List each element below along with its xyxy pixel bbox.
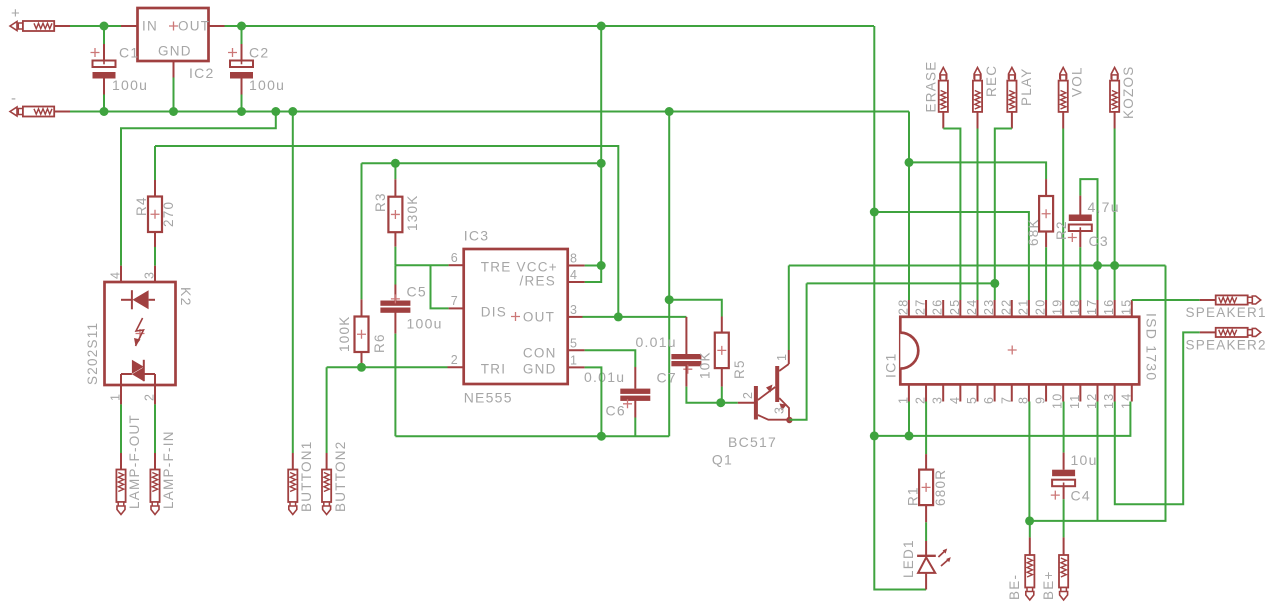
wire -rail drop x909: [908, 112, 910, 301]
svg-text:27: 27: [914, 299, 928, 315]
resistor R1: [919, 470, 933, 506]
wire C3 top lead: [1079, 196, 1081, 215]
wire C5 bottom lead: [394, 312, 396, 334]
svg-text:24: 24: [965, 299, 979, 315]
svg-text:100u: 100u: [407, 316, 443, 332]
svg-text:28: 28: [896, 299, 910, 315]
capacitor C4: [1052, 470, 1075, 477]
node junction NE555-GND/y436: [597, 432, 606, 441]
svg-text:-: -: [11, 90, 16, 107]
svg-text:OUT: OUT: [523, 310, 555, 325]
svg-text:0.01u: 0.01u: [636, 334, 677, 350]
node junction y265/KOZOS: [1110, 261, 1119, 270]
svg-text:21: 21: [1016, 299, 1030, 315]
svg-text:680R: 680R: [933, 469, 948, 506]
K2 origin cross: [136, 329, 145, 338]
wire -rail to K2 pin4: [121, 112, 276, 266]
svg-text:10u: 10u: [1071, 452, 1098, 468]
connector SPEAKER2: [1216, 328, 1248, 337]
svg-text:KOZOS: KOZOS: [1121, 65, 1136, 119]
wire CON net: [585, 350, 636, 367]
svg-text:R5: R5: [732, 359, 747, 379]
svg-text:26: 26: [931, 299, 945, 315]
connector PLAY: [1009, 68, 1016, 79]
node junction C2/+rail: [237, 22, 246, 31]
svg-text:4: 4: [948, 396, 962, 404]
IC3 pin 8 VCC stub: [568, 265, 585, 267]
connector plug - (supply negative): [10, 107, 17, 116]
capacitor C6: [620, 389, 650, 394]
Q1 base stub: [738, 402, 755, 404]
svg-text:19: 19: [1051, 299, 1065, 315]
svg-text:C3: C3: [1089, 233, 1109, 249]
node junction pin8: [597, 261, 606, 270]
wire emitter net y283: [807, 282, 995, 284]
svg-text:LAMP-F-OUT: LAMP-F-OUT: [127, 414, 142, 509]
node junction R3/VCC rail: [391, 159, 400, 168]
svg-text:LED1: LED1: [901, 539, 916, 578]
svg-text:11: 11: [1068, 394, 1082, 409]
svg-text:1: 1: [775, 353, 789, 361]
wire VOL to IC1: [1062, 112, 1064, 129]
IC3 pin 1 GND stub: [568, 366, 585, 368]
wire R6 bottom lead: [361, 352, 363, 367]
svg-text:TRI: TRI: [481, 362, 507, 377]
wire R6 riser: [361, 163, 363, 299]
connector REC: [974, 68, 981, 79]
connector BE-: [1025, 555, 1034, 588]
svg-text:3: 3: [931, 396, 945, 404]
node junction C2/-rail: [237, 107, 246, 116]
svg-text:IC1: IC1: [883, 352, 899, 378]
svg-text:IN: IN: [142, 19, 158, 34]
wire ERASE to IC1: [942, 112, 944, 129]
wire TRI net: [327, 366, 448, 368]
wire R5 line: [669, 300, 722, 317]
IC3 pin 2 TRI stub: [448, 366, 464, 368]
IC2 pin OUT lead: [209, 25, 225, 27]
wire PLAY to IC1: [1011, 112, 1013, 129]
node junction x669/R5 line: [665, 295, 674, 304]
voltage regulator IC2 box: [138, 8, 209, 61]
node junction IC2 GND/-rail: [169, 107, 178, 116]
svg-text:5: 5: [965, 396, 979, 404]
svg-text:R3: R3: [373, 192, 388, 212]
wire BE- lead: [1029, 521, 1031, 538]
IC2 origin cross: [169, 22, 178, 31]
Q1 collector lead: [788, 350, 790, 364]
svg-text:C1: C1: [119, 45, 139, 61]
wire pin10 to C4: [1063, 402, 1065, 453]
IC3 origin cross: [511, 312, 520, 321]
wire C7 bottom lead: [685, 366, 687, 387]
wire R4 top lead: [154, 146, 156, 180]
wire C5 top lead: [394, 265, 396, 284]
svg-text:16: 16: [1102, 299, 1116, 315]
K2 pin3 lead: [154, 266, 156, 300]
node junction y521/BE-: [1025, 516, 1034, 525]
wire + plug pin: [54, 25, 70, 27]
svg-text:10K: 10K: [698, 351, 713, 379]
transistor Q1 BC517: [754, 386, 758, 420]
svg-text:LAMP-F-IN: LAMP-F-IN: [161, 430, 176, 509]
svg-text:C7: C7: [657, 370, 677, 386]
svg-text:BE+: BE+: [1041, 570, 1056, 600]
svg-text:C6: C6: [606, 403, 626, 419]
svg-text:6: 6: [982, 396, 996, 404]
IC2 pin IN lead: [121, 25, 138, 27]
svg-text:2: 2: [451, 353, 459, 367]
svg-text:R2: R2: [1054, 220, 1069, 240]
svg-text:DIS: DIS: [481, 305, 507, 320]
node junction x909/y162: [905, 158, 914, 167]
wire NE555 GND to rail: [585, 367, 602, 436]
svg-text:4: 4: [570, 268, 578, 282]
svg-text:Q1: Q1: [712, 452, 733, 468]
timer IC3 box: [464, 249, 568, 384]
wire C3 top net: [1080, 179, 1097, 300]
wire K2 pin1 to LAMP-F-OUT: [120, 385, 122, 404]
node junction BUTTON1 branch/-rail: [288, 107, 297, 116]
svg-text:R1: R1: [906, 486, 921, 506]
wire K2 pin2 to LAMP-F-IN: [154, 385, 156, 404]
svg-text:5: 5: [570, 337, 578, 351]
wire pin8 to y521: [1028, 402, 1030, 521]
resistor R3: [388, 197, 402, 233]
node Q1 emitter dot: [786, 417, 792, 423]
svg-text:C5: C5: [407, 284, 427, 300]
svg-text:3: 3: [570, 303, 578, 317]
svg-text:9: 9: [1034, 396, 1048, 404]
wire R2 bottom lead: [1045, 232, 1047, 248]
svg-text:15: 15: [1119, 299, 1133, 315]
node junction y265/pin17: [1093, 261, 1102, 270]
IC1 top pin stubs and numbers 28-15: [908, 300, 910, 317]
wire VCC drop x601: [600, 26, 602, 266]
connector BUTTON1: [288, 470, 297, 503]
wire OUT net: [583, 316, 687, 318]
svg-text:NE555: NE555: [464, 390, 513, 406]
node junction pin1/y436: [905, 431, 914, 440]
K2 pin4 lead: [120, 266, 122, 300]
wire TRE net: [395, 264, 448, 266]
connector BUTTON2: [322, 470, 331, 503]
K2 internal triac: [132, 360, 144, 374]
wire C1 top lead: [103, 26, 105, 44]
svg-text:SPEAKER2: SPEAKER2: [1186, 338, 1267, 353]
svg-text:100u: 100u: [249, 77, 285, 93]
IC3 pin 5 CON stub: [568, 349, 585, 351]
svg-text:+: +: [11, 5, 20, 22]
wire y162 to R2: [909, 162, 1046, 179]
wire pin8/pin4 link: [585, 266, 602, 283]
connector KOZOS: [1111, 68, 1118, 79]
svg-text:GND: GND: [523, 362, 557, 377]
wire C4 bottom lead: [1063, 486, 1065, 499]
node junction R6/TRI: [357, 363, 366, 372]
svg-text:REC: REC: [984, 65, 999, 97]
svg-text:22: 22: [999, 299, 1013, 315]
wire C1 bottom lead: [103, 79, 105, 95]
node junction x669 branch/-rail: [665, 107, 674, 116]
capacitor C3: [1069, 215, 1092, 222]
wire collector net y265: [789, 265, 1166, 267]
svg-text:3: 3: [773, 406, 787, 414]
wire GND rail left (y436): [395, 435, 669, 437]
capacitor C2: [230, 61, 253, 68]
svg-text:23: 23: [982, 299, 996, 315]
svg-text:0.01u: 0.01u: [584, 369, 625, 385]
capacitor C1: [93, 61, 116, 68]
svg-text:25: 25: [948, 299, 962, 315]
connector plug + (supply positive): [10, 22, 17, 31]
K2 internal LED: [121, 299, 132, 301]
wire R4 top net (to NE555 OUT): [155, 146, 618, 317]
svg-text:130K: 130K: [405, 194, 420, 231]
connector VOL: [1060, 68, 1067, 79]
wire VCC rail (y163): [362, 162, 602, 164]
svg-text:IC2: IC2: [189, 65, 215, 81]
svg-text:4,7u: 4,7u: [1088, 199, 1120, 215]
svg-text:BC517: BC517: [728, 434, 777, 450]
svg-text:270: 270: [161, 201, 176, 227]
svg-text:8: 8: [1016, 396, 1030, 404]
svg-text:TRE: TRE: [481, 260, 512, 275]
svg-text:100u: 100u: [112, 77, 148, 93]
connector LAMP-F-IN: [150, 470, 159, 503]
svg-text:4: 4: [109, 271, 123, 279]
wire pin13 to SPEAKER2: [1200, 331, 1216, 333]
IC1 bottom pin stubs and numbers 1-14: [908, 384, 910, 401]
svg-text:R4: R4: [134, 196, 149, 216]
wire KOZOS to IC1: [1114, 112, 1116, 129]
svg-text:20: 20: [1034, 299, 1048, 315]
svg-text:VCC+: VCC+: [517, 260, 558, 275]
svg-text:ERASE: ERASE: [924, 60, 939, 112]
resistor R2: [1039, 196, 1053, 232]
wire - rail: [70, 111, 909, 113]
connector SPEAKER1: [1216, 295, 1248, 304]
wire DIS link: [431, 265, 449, 308]
svg-text:GND: GND: [158, 44, 192, 59]
svg-text:VOL: VOL: [1070, 66, 1085, 97]
svg-text:ISD 1730: ISD 1730: [1144, 313, 1160, 381]
resistor R5: [715, 333, 729, 369]
svg-text:C4: C4: [1071, 488, 1091, 504]
wire + rail: [70, 25, 121, 27]
Q1 emitter wire: [789, 283, 806, 419]
optocoupler K2 box: [105, 282, 176, 385]
connector LAMP-F-OUT: [116, 470, 125, 503]
svg-text:BUTTON2: BUTTON2: [333, 440, 348, 512]
wire C3 bottom lead: [1079, 231, 1081, 247]
node junction C1/-rail: [100, 107, 109, 116]
wire pin12 to y521: [1097, 402, 1099, 521]
IC2 pin GND lead: [173, 61, 175, 78]
node junction R5/base: [716, 398, 725, 407]
svg-text:17: 17: [1085, 299, 1099, 315]
connector BE+: [1059, 555, 1068, 588]
svg-text:68K: 68K: [1026, 218, 1041, 246]
svg-text:BUTTON1: BUTTON1: [299, 440, 314, 512]
svg-text:OUT: OUT: [178, 19, 210, 34]
svg-text:SPEAKER1: SPEAKER1: [1186, 305, 1267, 320]
wire -rail to BUTTON1: [292, 112, 294, 454]
node junction K2pin4 branch/-rail: [271, 107, 280, 116]
svg-text:2: 2: [741, 391, 755, 399]
wire TRI net to BUTTON2: [326, 367, 328, 453]
svg-text:PLAY: PLAY: [1019, 67, 1034, 106]
wire REC to IC1: [977, 112, 979, 129]
wire C2 top lead: [241, 26, 243, 44]
wire x669 branch: [668, 112, 670, 437]
wire R3 top lead: [394, 163, 396, 179]
IC1 origin cross: [1008, 346, 1017, 355]
svg-text:CON: CON: [523, 346, 557, 361]
wire pin2 to R1: [925, 402, 927, 455]
wire y212 to pin21: [874, 212, 1029, 300]
svg-text:7: 7: [999, 396, 1013, 404]
node junction C1/+rail: [100, 22, 109, 31]
svg-text:R6: R6: [372, 333, 387, 353]
resistor R4: [148, 197, 162, 233]
wire C7 top lead: [685, 317, 687, 354]
IC3 pin 3 OUT stub: [568, 316, 583, 318]
capacitor C7: [671, 354, 701, 359]
svg-text:8: 8: [570, 252, 578, 266]
node junction VCC-drop/+rail: [597, 22, 606, 31]
node junction OUT/R4 net: [614, 312, 623, 321]
svg-text:6: 6: [451, 251, 459, 265]
svg-text:IC3: IC3: [464, 228, 490, 244]
IC3 pin 7 DIS stub: [449, 307, 464, 309]
wire +rail drop x874: [874, 26, 926, 590]
svg-text:BE-: BE-: [1007, 574, 1022, 600]
node junction x874/y436: [870, 431, 879, 440]
connector ERASE: [940, 68, 947, 79]
svg-text:K2: K2: [178, 287, 194, 307]
wire C2 bottom lead: [241, 79, 243, 95]
capacitor C5: [380, 301, 410, 306]
svg-text:1: 1: [570, 354, 578, 368]
node junction y283/PLAY: [990, 279, 999, 288]
chip IC1 box: [900, 317, 1139, 385]
svg-text:S202S11: S202S11: [85, 322, 100, 385]
wire R5 bottom lead: [721, 368, 723, 387]
wire pin1 to GND rail: [908, 402, 910, 436]
svg-text:100K: 100K: [337, 315, 352, 352]
wire - plug pin: [54, 111, 70, 113]
wire R4 bottom lead: [154, 232, 156, 247]
wire R1 bottom lead: [925, 505, 927, 522]
wire pin15 to SPEAKER1: [1132, 299, 1200, 301]
IC3 pin 6 TRE stub: [449, 264, 464, 266]
IC3 pin 4 RES stub: [568, 281, 585, 283]
svg-text:/RES: /RES: [520, 274, 557, 289]
svg-text:18: 18: [1068, 299, 1082, 315]
K2 internal arrow (lightning): [136, 318, 144, 346]
resistor R6: [355, 317, 369, 353]
LED LED1: [925, 541, 927, 556]
svg-text:7: 7: [451, 294, 459, 308]
wire y265 to y521: [1030, 266, 1166, 521]
svg-text:C2: C2: [249, 45, 269, 61]
node junction x874/y212: [870, 208, 879, 217]
wire C6 bottom lead: [634, 400, 636, 417]
svg-text:3: 3: [143, 271, 157, 279]
node junction VCC-drop/y163: [597, 159, 606, 168]
wire R3 bottom lead: [394, 232, 396, 247]
wire GND rail right (y436): [874, 402, 1130, 436]
